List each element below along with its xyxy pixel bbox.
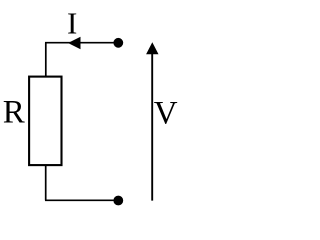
wire: [45, 199, 118, 201]
svg-text:V: V: [154, 95, 178, 131]
current arrow I: [68, 37, 81, 50]
node dot top: [113, 38, 123, 48]
wire: [45, 165, 47, 200]
voltage arrow V: [146, 42, 158, 200]
svg-text:R: R: [3, 95, 25, 131]
node dot bottom: [113, 196, 123, 206]
wire: [45, 43, 47, 77]
resistor R: [29, 77, 61, 166]
svg-text:I: I: [67, 6, 77, 41]
wire: [45, 42, 118, 44]
